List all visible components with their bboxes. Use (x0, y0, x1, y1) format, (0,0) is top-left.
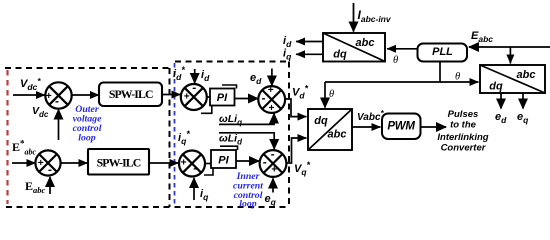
inner current loop box: black dashed top edge (175, 61, 289, 63)
wire Vdc feedback (58, 110, 60, 141)
svg-text:+: + (271, 164, 277, 175)
wire eq into S6 bottom (272, 179, 274, 193)
wire Vabc* to PWM (352, 126, 381, 128)
wire Eabc drop to abc-dq 2 (509, 47, 511, 64)
summing junction S1 (45, 82, 71, 108)
block abc-dq (current measurement) (323, 33, 385, 62)
block PWM (382, 114, 421, 140)
summing junction S5 (258, 86, 285, 113)
svg-text:Pulses: Pulses (448, 109, 479, 120)
svg-text:Converter: Converter (441, 143, 487, 154)
svg-text:dq: dq (333, 49, 347, 61)
svg-text:+: + (184, 91, 190, 102)
wire Vd* to dq-abc block (285, 99, 300, 117)
outer voltage loop box: black dashed top edge (5, 67, 169, 69)
PI2 ghost outline top (220, 146, 238, 150)
wire S4 to PI2 (205, 163, 211, 165)
PI2 ghost outline bottom (204, 168, 213, 175)
svg-text:-: - (263, 155, 267, 169)
wire PI1 to S5 (235, 98, 259, 100)
svg-text:loop: loop (239, 199, 257, 210)
block abc-dq (voltage measurement) (480, 65, 545, 93)
block SPW-ILC (voltage loop) (99, 83, 162, 107)
wire SPW-ILC 2 to S4 (149, 162, 179, 164)
svg-text:SPW-ILC: SPW-ILC (97, 156, 141, 170)
wire eq output (522, 93, 524, 109)
wire Iabc-inv input (353, 3, 355, 32)
block PLL (418, 44, 468, 62)
wire ed into S5 (271, 69, 273, 86)
wire theta from PLL down (439, 62, 441, 83)
svg-text:PI: PI (218, 155, 229, 167)
wire Vq* to dq-abc block (286, 138, 300, 163)
wire id output (296, 41, 323, 43)
svg-text:PI: PI (217, 92, 228, 104)
svg-text:-: - (192, 81, 196, 95)
outer voltage loop box: red dashed left edge (6, 70, 8, 204)
wire SPW-ILC to S3 (162, 94, 181, 96)
wire wLid into S6 top (219, 133, 274, 142)
svg-text:+: + (268, 103, 274, 114)
block PI1 (210, 89, 235, 106)
svg-text:PWM: PWM (387, 121, 415, 133)
svg-text:loop: loop (78, 133, 96, 144)
svg-text:Vabc*: Vabc* (357, 109, 385, 123)
wire iq feedback into S4 (193, 178, 195, 200)
wire theta right to abc-dq 2 (440, 81, 479, 83)
svg-text:θ: θ (329, 89, 334, 100)
inner current loop box: black dashed bottom edge (175, 206, 290, 208)
svg-text:SPW-ILC: SPW-ILC (109, 87, 153, 101)
wire wLiq into S5 bottom (219, 116, 274, 124)
wire PI2 to S6 (236, 160, 259, 162)
blue note: outer voltage control loop (73, 104, 102, 144)
svg-text:-: - (271, 147, 275, 161)
outer voltage loop box: black dashed bottom edge (6, 206, 170, 208)
wire ed output (500, 93, 502, 109)
svg-text:dq: dq (314, 115, 328, 127)
block PI2 (211, 150, 236, 168)
wire Vdc* input (13, 94, 45, 96)
wire Eabc input from right (469, 46, 550, 48)
wire Eabc feedback (49, 177, 51, 194)
svg-text:dq: dq (489, 81, 503, 93)
wire S2 to SPW-ILC 2 (61, 162, 88, 164)
wire PWM output (421, 126, 447, 128)
svg-text:to the: to the (450, 120, 477, 131)
wire iq output (296, 53, 323, 55)
wire S1 to SPW-ILC (71, 94, 99, 96)
blue note: inner current control loop (233, 171, 263, 210)
inner current loop box: blue dashed left edge (174, 63, 176, 206)
svg-text:-: - (48, 162, 52, 176)
wire E*abc input (12, 162, 36, 164)
wire theta PLL to abc-dq (387, 48, 418, 50)
block SPW-ILC (Eabc loop) (88, 149, 149, 175)
svg-text:-: - (262, 91, 266, 105)
svg-text:+: + (38, 158, 44, 169)
outer voltage loop box: black dashed right edge (169, 68, 171, 207)
svg-text:abc: abc (356, 37, 375, 49)
PI1 ghost outline bottom (201, 106, 212, 114)
summing junction S4 (179, 151, 205, 177)
svg-text:-: - (55, 94, 59, 108)
svg-text:+: + (180, 158, 186, 169)
summing junction S2 (35, 150, 60, 175)
svg-text:+: + (268, 85, 274, 96)
svg-text:abc: abc (328, 129, 347, 141)
svg-text:PLL: PLL (432, 46, 453, 58)
wire theta horizontal left (325, 81, 441, 83)
summing junction S3 (181, 84, 207, 110)
wire S3 to PI1 (206, 96, 210, 98)
summing junction S6 (260, 150, 287, 177)
block dq-abc (modulation) (308, 109, 352, 150)
svg-text:θ: θ (393, 55, 398, 66)
wire id feedback into S3 (194, 69, 196, 83)
svg-text:-: - (193, 161, 197, 175)
svg-text:Interlinking: Interlinking (437, 132, 488, 143)
wire theta down to dq-abc (324, 82, 326, 108)
inner current loop box: black dashed right edge (288, 62, 290, 208)
PI1 ghost outline top (222, 85, 237, 89)
note: pulses to the interlinking converter (437, 109, 488, 154)
svg-text:θ: θ (455, 72, 460, 83)
svg-text:+: + (46, 91, 52, 102)
svg-text:abc: abc (517, 69, 536, 81)
